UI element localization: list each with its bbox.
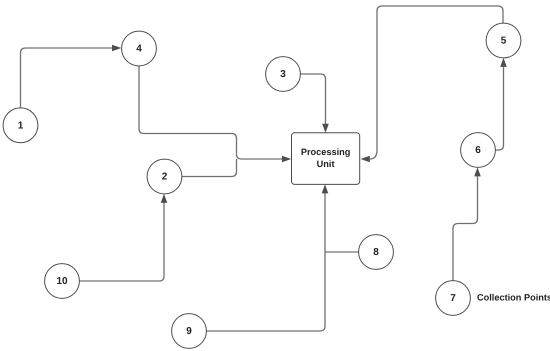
- node 6: [461, 133, 496, 168]
- node 4: [122, 31, 157, 66]
- node 2: [147, 159, 182, 194]
- node 5: [486, 23, 521, 58]
- svg-text:3: 3: [280, 69, 286, 80]
- svg-text:Collection Points: Collection Points: [477, 293, 550, 303]
- svg-text:6: 6: [475, 145, 481, 156]
- arrowhead into Processing Unit bottom: [322, 184, 329, 193]
- wire edge 5 to Processing Unit right: [370, 6, 503, 159]
- arrowhead into node 6 bottom: [474, 167, 481, 176]
- svg-text:1: 1: [18, 121, 24, 132]
- svg-text:7: 7: [450, 293, 456, 304]
- svg-text:2: 2: [162, 172, 168, 183]
- wire edge 9 to Processing Unit bottom: [206, 193, 325, 331]
- Processing Unit box: [292, 133, 360, 185]
- wire edge 4 to Processing Unit: [139, 66, 282, 159]
- node 9: [172, 314, 207, 349]
- arrowhead into Processing Unit left: [282, 156, 291, 163]
- node 10: [45, 264, 80, 299]
- arrowhead into node 2 bottom: [161, 194, 168, 203]
- wire edge 3 to Processing Unit top: [300, 74, 325, 124]
- wire edge 6 to 5: [495, 67, 503, 150]
- svg-text:Processing: Processing: [301, 147, 351, 157]
- node 1: [3, 108, 38, 143]
- svg-text:8: 8: [373, 247, 379, 258]
- svg-text:9: 9: [186, 326, 192, 337]
- arrowhead into node 4: [112, 45, 121, 52]
- wire edge 7 to 6: [453, 176, 478, 280]
- arrowhead into Processing Unit top: [322, 124, 329, 133]
- wire edge 10 to 2: [79, 203, 164, 281]
- wire edge 8 to junction: [325, 251, 359, 253]
- node 3: [266, 57, 301, 92]
- svg-text:4: 4: [136, 44, 142, 55]
- node 7: [436, 281, 471, 316]
- svg-text:Unit: Unit: [317, 159, 335, 169]
- wire edge 2 to Processing Unit: [182, 159, 237, 177]
- svg-text:5: 5: [501, 36, 507, 47]
- arrowhead into Processing Unit right: [361, 156, 370, 163]
- arrowhead into node 5 bottom: [500, 58, 507, 67]
- svg-text:10: 10: [56, 276, 68, 287]
- node 8: [359, 235, 394, 270]
- wire edge 1 to 4: [21, 48, 113, 108]
